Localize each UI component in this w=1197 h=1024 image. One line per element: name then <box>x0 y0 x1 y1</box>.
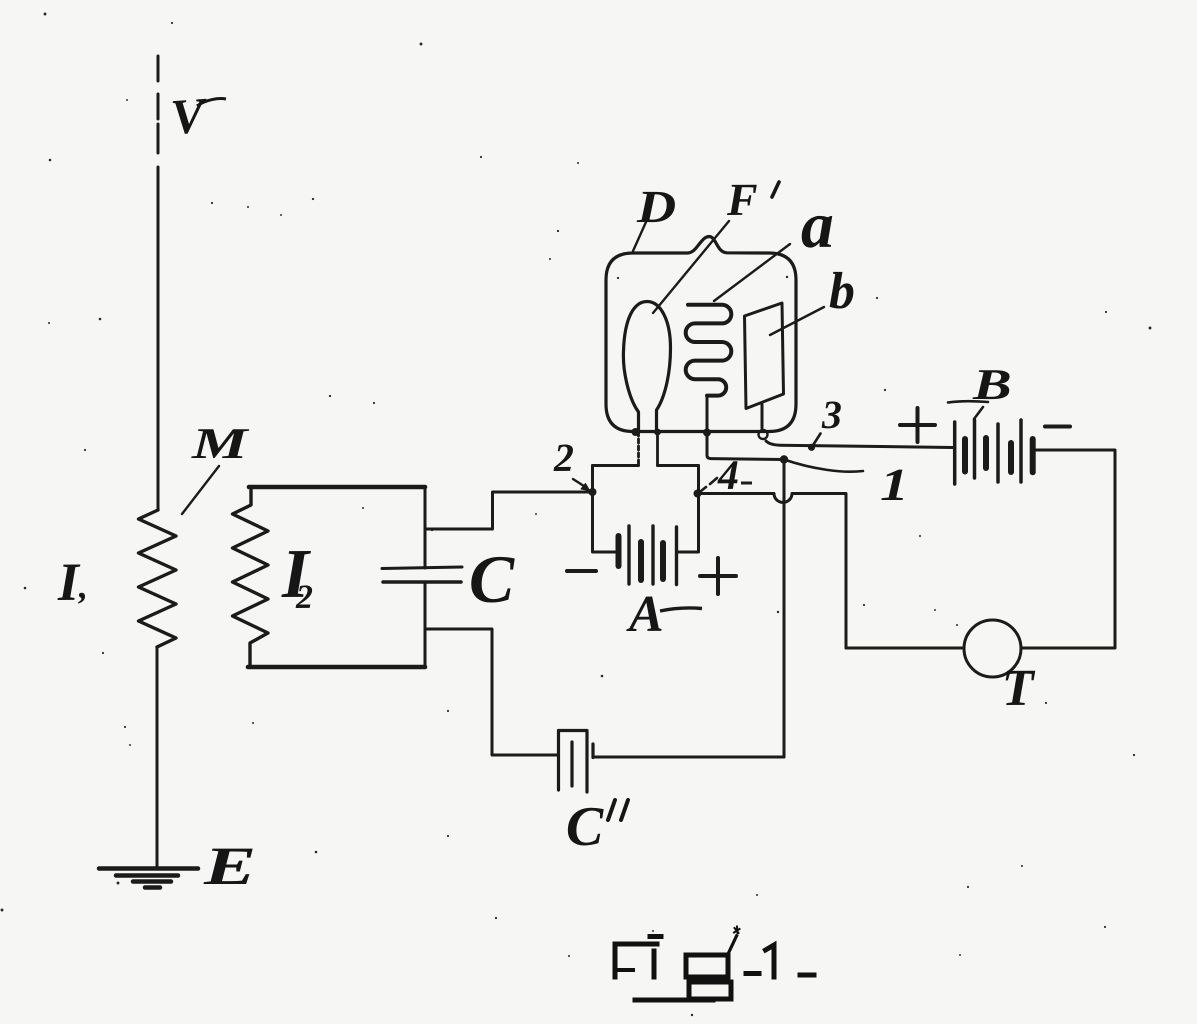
minus sign battery A <box>567 569 596 573</box>
battery A box left <box>593 466 618 553</box>
grid lead wire <box>707 396 784 460</box>
wire loop top <box>249 485 425 490</box>
node 2 junction <box>589 488 597 496</box>
svg-text:3: 3 <box>821 392 842 437</box>
inductance I1 zigzag <box>139 510 177 647</box>
node 4 junction <box>694 490 702 498</box>
filament stem left <box>637 432 640 466</box>
figure mark Fig.1. <box>615 927 814 1001</box>
battery A box right <box>679 466 699 553</box>
battery B cells <box>953 422 957 484</box>
svg-text:a: a <box>801 189 834 262</box>
wire loop bottom <box>248 665 425 670</box>
capacitor C <box>382 567 462 569</box>
svg-text:b: b <box>829 263 855 320</box>
ground E <box>99 869 198 888</box>
capacitor C'' <box>559 731 594 793</box>
leader line for D <box>633 222 646 251</box>
minus sign battery B <box>1045 425 1070 429</box>
leader line for a <box>714 244 790 301</box>
inductance I2 zigzag (loop left side) <box>233 487 269 667</box>
svg-text:2: 2 <box>553 435 574 480</box>
wire loop right lower <box>424 582 427 667</box>
plate b <box>745 303 784 409</box>
leader line for 1 <box>784 460 863 472</box>
wire I1 to ground <box>156 647 159 868</box>
plus sign battery A <box>700 558 736 594</box>
plate seal loop <box>759 430 768 439</box>
wire T to node 4 riser <box>846 647 964 650</box>
svg-text:M: M <box>191 419 251 468</box>
svg-text:A: A <box>626 586 664 643</box>
antenna lead V (dashed top) <box>157 56 160 153</box>
wire loop right upper <box>424 487 427 568</box>
wire antenna vertical <box>157 167 160 510</box>
leader line for F' <box>653 221 729 313</box>
svg-text:I: I <box>57 552 81 612</box>
svg-text:T: T <box>1002 660 1036 717</box>
svg-text:E: E <box>203 836 257 896</box>
svg-text:D: D <box>636 181 676 232</box>
grid a serpentine <box>686 305 732 396</box>
svg-text:2: 2 <box>295 579 313 616</box>
leader line for 3 <box>813 434 821 447</box>
plate lead <box>761 405 764 429</box>
filament stem right <box>656 432 659 466</box>
leader arrow for 2 <box>573 479 587 488</box>
battery A box top <box>593 464 699 467</box>
plus sign battery B <box>900 408 935 442</box>
svg-text:C: C <box>469 541 515 617</box>
tube envelope D <box>606 237 796 432</box>
filament F' <box>623 302 670 433</box>
grid node junction <box>780 455 788 463</box>
battery A cells <box>616 536 622 566</box>
svg-text:C: C <box>566 796 604 858</box>
leader dashes for 4 <box>701 478 717 491</box>
wire tap to node 2 <box>425 492 589 529</box>
svg-text:1: 1 <box>880 459 909 510</box>
wire 4 with hop <box>699 494 847 649</box>
leader line for M <box>182 466 219 514</box>
wire grid node down to C'' <box>783 460 786 758</box>
leader underline for B <box>948 401 988 402</box>
wire tap to C'' <box>425 629 557 755</box>
wire battery B to right side <box>1022 450 1116 648</box>
wire C'' to grid node <box>593 756 784 759</box>
svg-text:4: 4 <box>717 453 739 499</box>
junction dots tube base <box>632 428 640 436</box>
wire 3 <box>766 441 953 448</box>
svg-text:,: , <box>78 566 88 606</box>
leader line for b <box>770 307 824 335</box>
telephone receiver T <box>964 620 1021 677</box>
svg-text:B: B <box>972 360 1012 409</box>
svg-text:F: F <box>726 174 758 225</box>
